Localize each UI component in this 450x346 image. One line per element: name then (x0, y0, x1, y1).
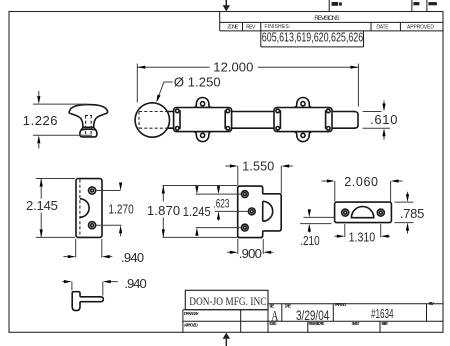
svg-text:.610: .610 (370, 112, 398, 127)
top hole (89, 187, 96, 194)
dimension .785 (395, 192, 425, 234)
svg-text:ZONE: ZONE (227, 25, 239, 31)
svg-text:1.270: 1.270 (108, 204, 133, 217)
dimension 12.000 (137, 60, 358, 107)
left hole (342, 209, 349, 216)
centerline arrow top (223, 0, 230, 11)
bolt rod (168, 111, 355, 113)
knob body (69, 105, 108, 130)
dimension .940 (angle leg) (62, 276, 147, 296)
title block (183, 290, 443, 332)
bottom hole (241, 224, 248, 231)
svg-text:1.550: 1.550 (242, 160, 274, 174)
svg-text:DON-JO MFG. INC.: DON-JO MFG. INC. (189, 295, 268, 308)
svg-text:APPROVED: APPROVED (407, 25, 434, 31)
svg-text:Ø 1.250: Ø 1.250 (174, 74, 221, 89)
svg-text:605,613,619,620,625,626: 605,613,619,620,625,626 (262, 31, 363, 45)
dimension 1.550 (225, 160, 293, 194)
dimension .610 (363, 101, 398, 140)
svg-text:1.226: 1.226 (23, 113, 58, 128)
knob base (80, 127, 97, 137)
svg-text:1.870: 1.870 (147, 203, 180, 218)
dimension 1.226 (23, 91, 92, 148)
bottom hole (89, 222, 96, 229)
bolt recess semicircle (80, 199, 89, 217)
leader dia 1.250 (155, 74, 221, 103)
bolt dome semicircle (262, 201, 264, 221)
middle hole (248, 208, 255, 215)
svg-text:.623: .623 (213, 198, 229, 211)
right hole (377, 209, 384, 216)
dimension 1.310 (334, 224, 390, 245)
svg-text:SHEET: SHEET (381, 321, 388, 326)
svg-text:RELEASE DATE: RELEASE DATE (309, 321, 325, 326)
svg-text:APPROVED: APPROVED (184, 322, 198, 327)
svg-text:REVISIONS: REVISIONS (314, 15, 339, 22)
svg-text:SHEET: SHEET (352, 321, 360, 326)
dimension .940 (plate width) (63, 239, 144, 265)
dimension 2.145 (26, 179, 75, 238)
svg-text:.785: .785 (400, 206, 425, 221)
svg-text:.210: .210 (300, 235, 319, 248)
angle profile (72, 292, 103, 311)
top hole (241, 191, 248, 198)
svg-text:1.310: 1.310 (349, 231, 376, 245)
svg-text:DATE: DATE (376, 25, 389, 31)
strike body (335, 202, 392, 223)
dimension .623 (213, 186, 248, 220)
svg-text:2.145: 2.145 (26, 198, 58, 213)
guide 2 body (274, 108, 332, 132)
guide 2 ears (294, 97, 311, 107)
svg-text:.940: .940 (121, 250, 144, 265)
svg-text:SCALE: SCALE (269, 321, 277, 326)
svg-text:1.245: 1.245 (183, 204, 211, 219)
dome (351, 207, 373, 218)
revisions table (220, 12, 443, 47)
svg-text:DATE: DATE (285, 303, 292, 308)
svg-text:REV: REV (429, 301, 435, 306)
svg-text:REV: REV (246, 25, 256, 31)
dimension 1.270 (96, 183, 134, 237)
guide outline (238, 186, 282, 238)
base top seam (81, 128, 96, 131)
hidden rod in ball (139, 111, 168, 113)
dimension 2.060 (322, 175, 403, 201)
svg-text:PART NO.: PART NO. (335, 302, 347, 307)
cut-off row ticks above border (329, 0, 437, 12)
svg-text:SIZE: SIZE (269, 303, 274, 308)
dimension 1.245 (183, 186, 242, 236)
dimension .210 (300, 209, 335, 248)
svg-text:DRAWN BY: DRAWN BY (184, 311, 199, 316)
svg-text:.940: .940 (124, 276, 146, 291)
svg-text:12.000: 12.000 (213, 60, 253, 75)
dimension 1.870 (147, 186, 237, 238)
svg-text:2.060: 2.060 (344, 175, 378, 189)
svg-text:#1634: #1634 (371, 307, 394, 321)
knob ball (135, 103, 169, 137)
hidden hole dashes (85, 115, 87, 136)
centerline arrow bottom (223, 333, 230, 346)
guide 1 body (174, 108, 232, 132)
svg-text:FINISHES:: FINISHES: (265, 24, 291, 30)
hidden edge dash (79, 180, 81, 237)
svg-text:.900: .900 (239, 246, 262, 261)
dimension .900 (227, 239, 273, 261)
plate body (76, 179, 102, 238)
guide 1 ears (194, 97, 211, 107)
